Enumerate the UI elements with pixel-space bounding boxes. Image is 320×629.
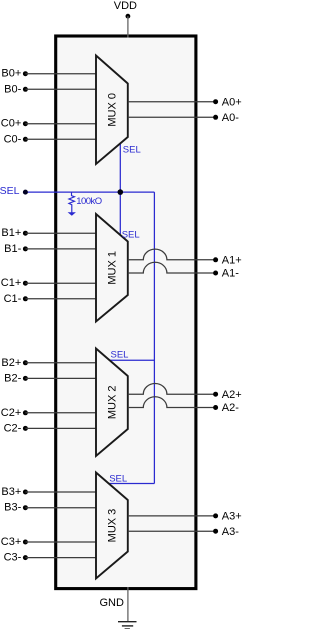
- pin A1- with crossover hop: [128, 262, 239, 279]
- pin A3-: [128, 526, 239, 538]
- wire: vertical MUX0 to MUX1 through junction: [119, 143, 121, 235]
- svg-text:A0-: A0-: [222, 112, 239, 124]
- mux MUX2: [96, 349, 128, 457]
- svg-text:C2+: C2+: [1, 407, 22, 419]
- svg-text:B0-: B0-: [4, 83, 21, 95]
- svg-text:VDD: VDD: [114, 0, 137, 12]
- pin C0-: [4, 133, 96, 145]
- wire: branch to MUX2: [110, 359, 155, 361]
- svg-text:A2-: A2-: [222, 402, 239, 414]
- svg-text:B2+: B2+: [1, 357, 21, 369]
- pin C2+: [1, 407, 96, 419]
- svg-text:C1-: C1-: [4, 293, 22, 305]
- pin A2- with crossover hop: [128, 397, 239, 414]
- svg-text:MUX 2: MUX 2: [106, 385, 118, 419]
- svg-text:B1+: B1+: [1, 227, 21, 239]
- svg-text:A2+: A2+: [222, 389, 242, 401]
- svg-text:B3-: B3-: [4, 502, 21, 514]
- svg-text:C3+: C3+: [1, 536, 22, 548]
- pin B0+: [1, 68, 96, 80]
- svg-text:GND: GND: [99, 597, 124, 609]
- svg-text:C3-: C3-: [4, 552, 22, 564]
- pin A2+ with crossover hop: [128, 384, 242, 401]
- svg-text:B3+: B3+: [1, 486, 21, 498]
- pin C1-: [4, 293, 96, 305]
- pin B0-: [4, 83, 96, 95]
- pin C0+: [1, 118, 96, 130]
- svg-text:A0+: A0+: [222, 96, 242, 108]
- pin B1-: [4, 243, 96, 255]
- svg-text:C2-: C2-: [4, 422, 22, 434]
- resistor R1 100k pulldown: [69, 192, 75, 212]
- pin B3-: [4, 502, 96, 514]
- pin A0-: [128, 112, 239, 124]
- pin A1+ with crossover hop: [128, 249, 242, 266]
- wire: junction to right riser: [120, 191, 154, 193]
- svg-text:MUX 1: MUX 1: [106, 251, 118, 285]
- mux MUX0: [96, 56, 128, 165]
- wire: branch to MUX3: [109, 483, 155, 485]
- pin B3+: [1, 486, 96, 498]
- junction dot: [118, 189, 124, 195]
- GND wire: [127, 587, 129, 621]
- svg-text:MUX 0: MUX 0: [106, 93, 118, 127]
- svg-text:B1-: B1-: [4, 243, 21, 255]
- pin A0+: [128, 96, 242, 108]
- svg-text:A1+: A1+: [222, 255, 242, 267]
- svg-text:MUX 3: MUX 3: [106, 509, 118, 543]
- pin B1+: [1, 227, 96, 239]
- wire: right riser: [153, 192, 155, 483]
- pin C3-: [4, 552, 96, 564]
- pin A3+: [128, 511, 242, 523]
- pin C2-: [4, 422, 96, 434]
- svg-text:C1+: C1+: [1, 277, 22, 289]
- svg-text:A1-: A1-: [222, 268, 239, 280]
- pin C3+: [1, 536, 96, 548]
- svg-text:SEL: SEL: [123, 145, 141, 156]
- VDD wire: [127, 16, 129, 37]
- svg-text:SEL: SEL: [109, 474, 127, 485]
- ground symbol: [118, 622, 137, 629]
- svg-text:B0+: B0+: [1, 68, 21, 80]
- pin B2-: [4, 372, 96, 384]
- svg-text:100kO: 100kO: [76, 196, 102, 207]
- SEL net wire (blue): [109, 143, 155, 483]
- IC body U1: [56, 36, 196, 589]
- svg-text:C0-: C0-: [4, 133, 22, 145]
- svg-text:A3+: A3+: [222, 511, 242, 523]
- pin SEL: [0, 185, 120, 197]
- svg-text:A3-: A3-: [222, 526, 239, 538]
- svg-text:SEL: SEL: [122, 230, 140, 241]
- pin B2+: [1, 357, 96, 369]
- svg-text:SEL: SEL: [0, 185, 20, 197]
- mux MUX3: [96, 473, 128, 579]
- svg-text:B2-: B2-: [4, 372, 21, 384]
- pin C1+: [1, 277, 96, 289]
- mux MUX1: [96, 214, 128, 322]
- svg-text:SEL: SEL: [111, 349, 129, 360]
- svg-text:C0+: C0+: [1, 118, 22, 130]
- VDD pin dot: [126, 14, 131, 19]
